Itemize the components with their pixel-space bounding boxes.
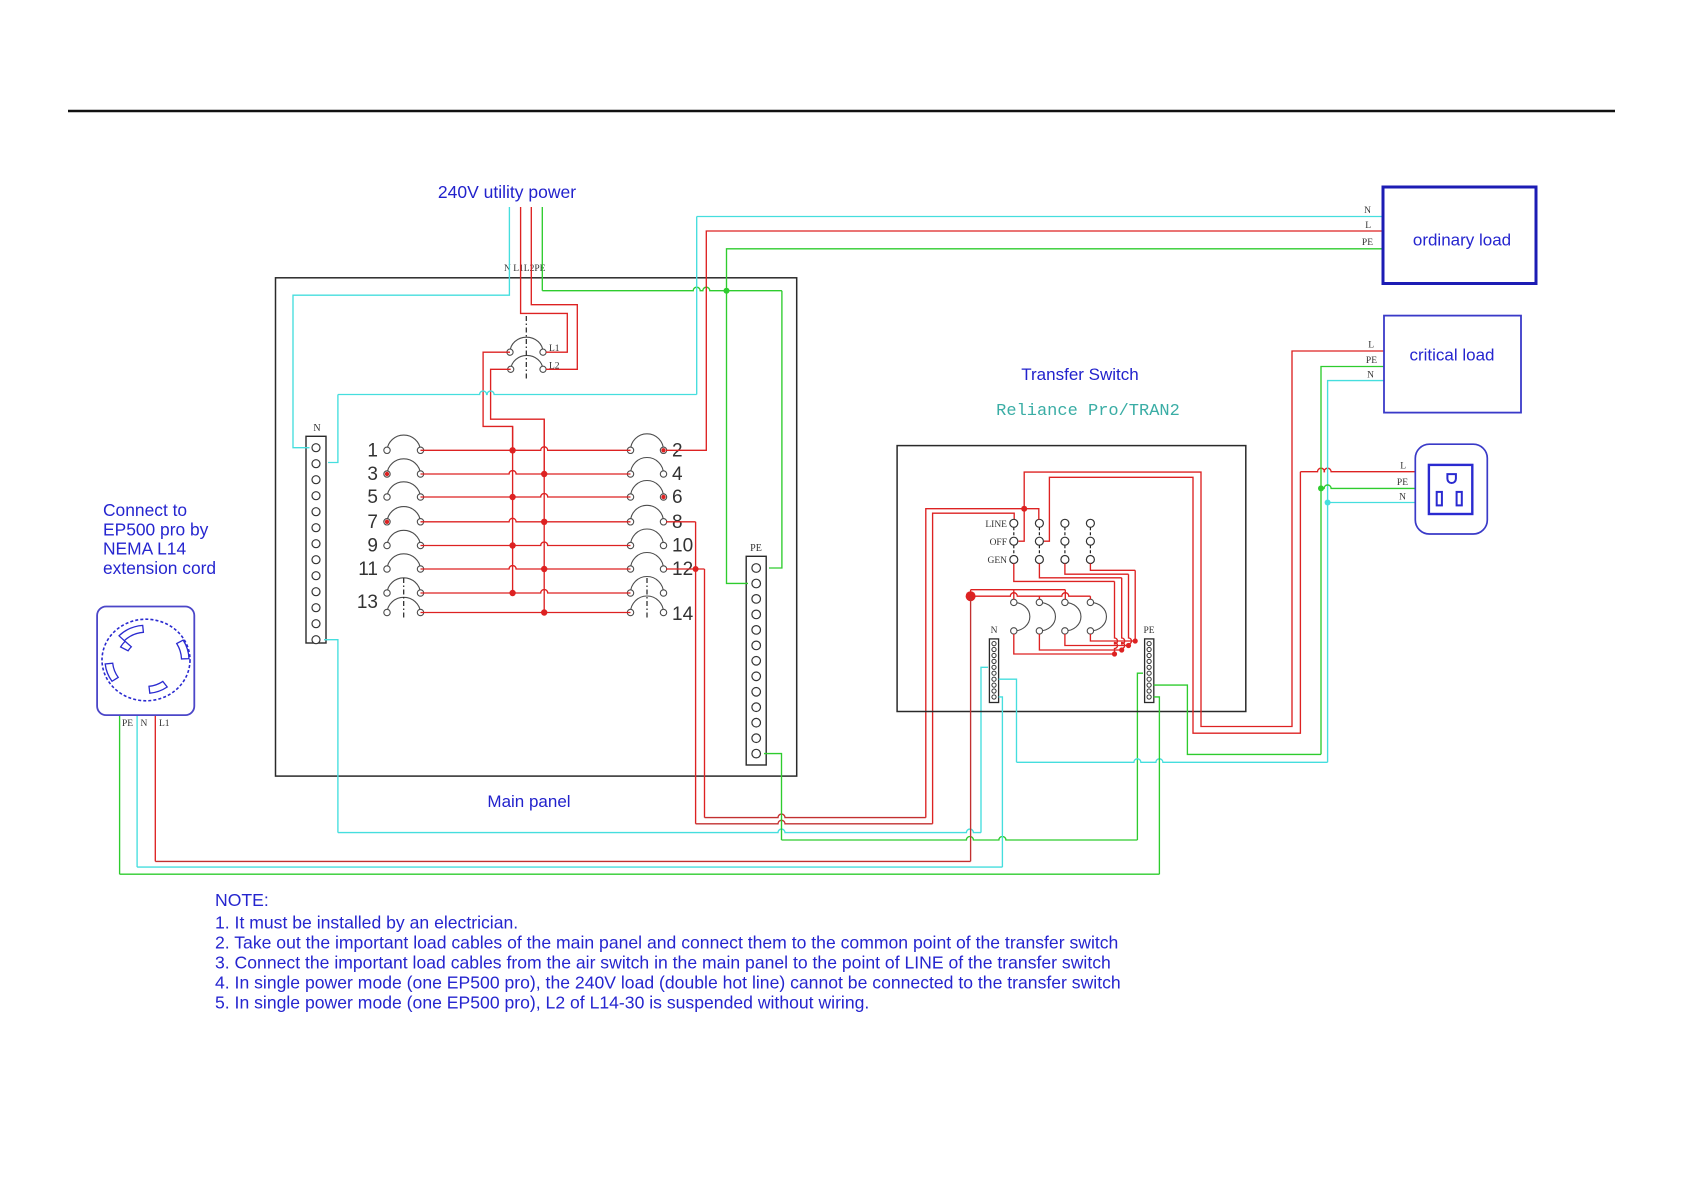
svg-text:GEN: GEN — [987, 556, 1007, 566]
TS N strip terminals — [992, 642, 996, 700]
svg-text:N: N — [1367, 371, 1374, 381]
junction row 7 bus — [509, 590, 515, 596]
svg-text:PE: PE — [1397, 478, 1408, 488]
PE bus bar — [746, 556, 766, 765]
svg-text:Transfer Switch: Transfer Switch — [1021, 365, 1138, 384]
svg-text:PE: PE — [750, 543, 762, 554]
svg-text:OFF: OFF — [990, 538, 1007, 548]
svg-text:N: N — [313, 423, 320, 434]
svg-text:1. It must be installed by an: 1. It must be installed by an electricia… — [215, 913, 518, 933]
NEMA L14 plug — [97, 607, 194, 716]
junction GEN2 — [1119, 647, 1124, 652]
junction utility PE / ordinary PE — [724, 288, 730, 294]
wire junction to LINE2 — [1024, 509, 1039, 520]
junction GEN1 — [1112, 651, 1117, 656]
svg-text:PE: PE — [1143, 626, 1154, 636]
wire utility L2 (red) — [531, 207, 577, 369]
wire TS bus upper (red) — [971, 589, 1066, 591]
svg-text:NOTE:: NOTE: — [215, 890, 269, 910]
junction row 4 bus — [541, 519, 547, 525]
wire outlet N branch (cyan) — [1328, 502, 1415, 504]
transfer switch breakers (4 poles) — [1011, 599, 1107, 634]
wire main panel PE to transfer switch PE (green) — [764, 754, 782, 840]
wire row 7 interconnect — [421, 590, 631, 594]
wire row 5 interconnect — [421, 542, 631, 546]
wire TS common to plug L1 (red) — [970, 596, 972, 861]
wire L2 feed to right bus — [491, 369, 545, 474]
svg-text:PE: PE — [122, 719, 133, 729]
label Connect to EP500 pro by NEMA L14 extension cord — [103, 500, 216, 578]
breaker 6 (right) — [627, 481, 666, 501]
svg-text:5. In single power mode (one E: 5. In single power mode (one EP500 pro),… — [215, 992, 869, 1012]
breaker 5 (left) — [384, 482, 424, 500]
wire main panel N to transfer switch N (cyan) — [324, 640, 338, 833]
wire row 3 interconnect — [421, 494, 631, 498]
svg-text:L2: L2 — [549, 362, 560, 372]
svg-text:2. Take out the important load: 2. Take out the important load cables of… — [215, 932, 1118, 952]
svg-text:L: L — [1365, 221, 1371, 231]
wire row 2 interconnect — [421, 471, 631, 474]
svg-text:N: N — [1399, 493, 1406, 503]
junction GEN4 — [1133, 638, 1138, 643]
main panel box — [276, 278, 797, 776]
wire TS PE to plug PE (green) — [1154, 697, 1160, 874]
breaker 7 (left) — [384, 507, 424, 525]
wire TS N to critical load N (cyan) — [999, 679, 1017, 762]
svg-text:LINE: LINE — [985, 520, 1007, 530]
transfer switch box — [897, 446, 1246, 712]
svg-text:critical load: critical load — [1409, 346, 1494, 365]
wire breaker 2 bottom link (red) — [1039, 634, 1121, 650]
svg-text:N L1L2PE: N L1L2PE — [504, 264, 546, 274]
page top rule — [68, 110, 1615, 113]
terminal dots (wired breaker poles) — [385, 448, 666, 524]
svg-text:4. In single power mode (one E: 4. In single power mode (one EP500 pro),… — [215, 972, 1121, 992]
TS PE strip — [1145, 639, 1154, 703]
wire utility N (cyan) — [293, 207, 509, 448]
svg-text:Connect to: Connect to — [103, 500, 187, 520]
svg-text:N: N — [1364, 206, 1371, 216]
wire GEN2 to breaker 2 (red) — [1039, 564, 1121, 578]
main breaker 240V (L1/L2 poles) — [507, 316, 546, 381]
svg-text:L1: L1 — [159, 719, 170, 729]
wire row 6 interconnect — [421, 566, 631, 569]
wire junction to OFF1 — [1019, 509, 1025, 542]
svg-text:4: 4 — [672, 464, 683, 485]
svg-text:11: 11 — [358, 559, 378, 580]
breaker 2 (right) — [627, 434, 666, 454]
svg-text:1: 1 — [367, 440, 378, 461]
ordinary load box — [1383, 187, 1536, 284]
left bus L1 — [512, 426, 514, 593]
svg-text:6: 6 — [672, 487, 683, 508]
wire row 4 interconnect — [421, 518, 631, 521]
wire TS PE to critical load PE (green) — [1154, 685, 1321, 754]
svg-text:7: 7 — [367, 512, 378, 533]
wire GEN1 to breaker 1 (red) — [1014, 564, 1115, 582]
svg-text:14: 14 — [672, 604, 694, 625]
wire TS N to plug N (cyan) — [999, 697, 1003, 867]
junction row 6 bus — [541, 566, 547, 572]
PE bus terminals — [752, 564, 761, 758]
wire ordinary load PE (green) — [727, 249, 1384, 584]
junction LINE feed — [1021, 506, 1027, 512]
wire breaker 3 bottom link (red) — [1065, 634, 1129, 646]
svg-text:NEMA L14: NEMA L14 — [103, 539, 186, 559]
breaker 3 (left) — [384, 459, 424, 477]
wire GEN3 to breaker 3 (red) — [1065, 564, 1129, 575]
svg-text:N: N — [141, 719, 148, 729]
wire ordinary load N (cyan) — [697, 216, 1383, 218]
wall outlet (critical receptacle) — [1415, 444, 1487, 534]
breaker 11 (left) — [384, 554, 424, 572]
breaker 4 (right) — [627, 458, 666, 478]
wire breaker 12 to LINE2 (red) — [666, 568, 705, 570]
junction row 1 bus — [509, 447, 515, 453]
wire utility PE (green) — [541, 207, 543, 291]
svg-text:N: N — [991, 626, 998, 636]
svg-text:ordinary load: ordinary load — [1413, 231, 1511, 250]
selector switches LINE/OFF/GEN (4 poles) — [1010, 519, 1095, 563]
breaker 14 (double pole right) — [627, 577, 666, 618]
svg-text:PE: PE — [1366, 356, 1377, 366]
critical load box — [1384, 316, 1521, 413]
junction outlet N — [1325, 500, 1331, 506]
wire OFF2 to wall outlet L (red) — [1044, 472, 1300, 734]
N bus terminals — [312, 444, 320, 644]
junction row 3 bus — [509, 494, 515, 500]
breaker 8 (right) — [627, 505, 666, 525]
junction row 2 bus — [541, 471, 547, 477]
breaker 9 (left) — [384, 530, 424, 548]
wire breaker 8 to LINE1 (red) — [666, 521, 696, 523]
svg-text:Reliance Pro/TRAN2: Reliance Pro/TRAN2 — [996, 402, 1180, 421]
right bus L2 — [543, 419, 545, 612]
wire outlet PE branch (green) — [1321, 485, 1415, 488]
svg-text:EP500 pro by: EP500 pro by — [103, 519, 209, 539]
svg-text:extension cord: extension cord — [103, 558, 216, 578]
junction TS bus common — [966, 591, 976, 601]
NOTE text block — [215, 890, 1121, 1012]
junction row 8 bus — [541, 609, 547, 615]
wire ordinary load L (red) — [666, 231, 1383, 450]
N bus bar — [306, 436, 326, 643]
wire utility L1 (red) — [521, 207, 568, 352]
wire breaker 1 bottom link (red) — [1014, 634, 1115, 654]
wire row 8 interconnect — [421, 612, 631, 614]
svg-text:3. Connect the important load: 3. Connect the important load cables fro… — [215, 952, 1111, 972]
svg-text:Main panel: Main panel — [487, 792, 570, 811]
breaker 1 (left) — [384, 435, 424, 453]
svg-text:PE: PE — [1362, 238, 1373, 248]
svg-text:5: 5 — [367, 487, 378, 508]
breaker 10 (right) — [627, 529, 666, 549]
breaker 13 (double pole left) — [384, 578, 424, 618]
svg-text:L: L — [1400, 462, 1406, 472]
breaker 12 (right) — [627, 553, 666, 573]
junction GEN3 — [1126, 643, 1131, 648]
wire junction to critical load L (red) — [1024, 351, 1384, 727]
wire breaker 4 bottom link (red) — [1090, 634, 1135, 641]
wire L1 feed to left bus — [483, 352, 512, 450]
wire row 1 interconnect — [421, 447, 631, 450]
svg-text:3: 3 — [367, 464, 378, 485]
junction row 5 bus — [509, 542, 515, 548]
TS N strip — [989, 639, 998, 703]
svg-text:13: 13 — [357, 592, 378, 613]
junction outlet PE — [1318, 485, 1324, 491]
svg-text:10: 10 — [672, 536, 693, 557]
svg-text:9: 9 — [367, 536, 378, 557]
wire GEN4 to breaker 4 (red) — [1090, 564, 1135, 571]
TS PE strip terminals — [1147, 642, 1151, 700]
wire TS bus lower (red) — [971, 593, 1091, 597]
svg-text:L: L — [1368, 341, 1374, 351]
svg-text:240V utility power: 240V utility power — [438, 182, 576, 202]
junction breaker 8/12 wires — [693, 566, 699, 572]
